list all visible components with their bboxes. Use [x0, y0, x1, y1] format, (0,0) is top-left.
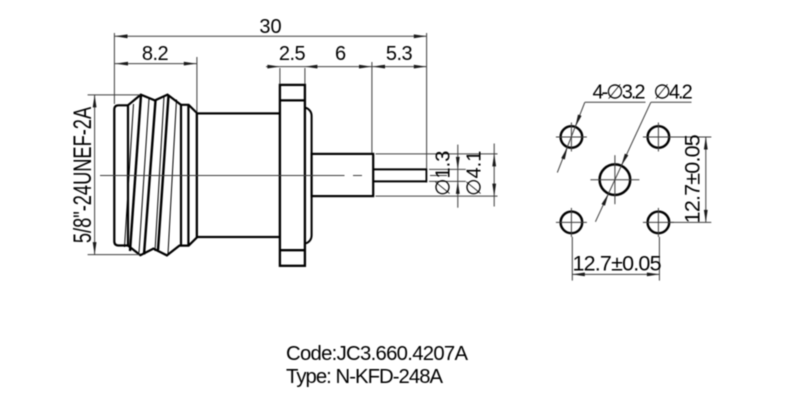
svg-text:4-∅3.2: 4-∅3.2 [593, 81, 646, 103]
svg-text:30: 30 [259, 16, 281, 38]
svg-text:Type: N-KFD-248A: Type: N-KFD-248A [286, 366, 444, 388]
svg-text:Code:JC3.660.4207A: Code:JC3.660.4207A [286, 343, 469, 365]
svg-text:5.3: 5.3 [386, 43, 413, 65]
svg-text:∅4.2: ∅4.2 [654, 81, 693, 103]
svg-text:6: 6 [335, 43, 346, 65]
svg-text:12.7±0.05: 12.7±0.05 [681, 134, 705, 223]
svg-text:12.7±0.05: 12.7±0.05 [572, 252, 661, 276]
svg-text:8.2: 8.2 [142, 43, 169, 65]
svg-text:2.5: 2.5 [279, 43, 306, 65]
svg-text:∅1.3: ∅1.3 [433, 151, 455, 196]
svg-text:∅4.1: ∅4.1 [464, 151, 486, 196]
svg-text:5/8"-24UNEF-2A: 5/8"-24UNEF-2A [68, 107, 97, 244]
